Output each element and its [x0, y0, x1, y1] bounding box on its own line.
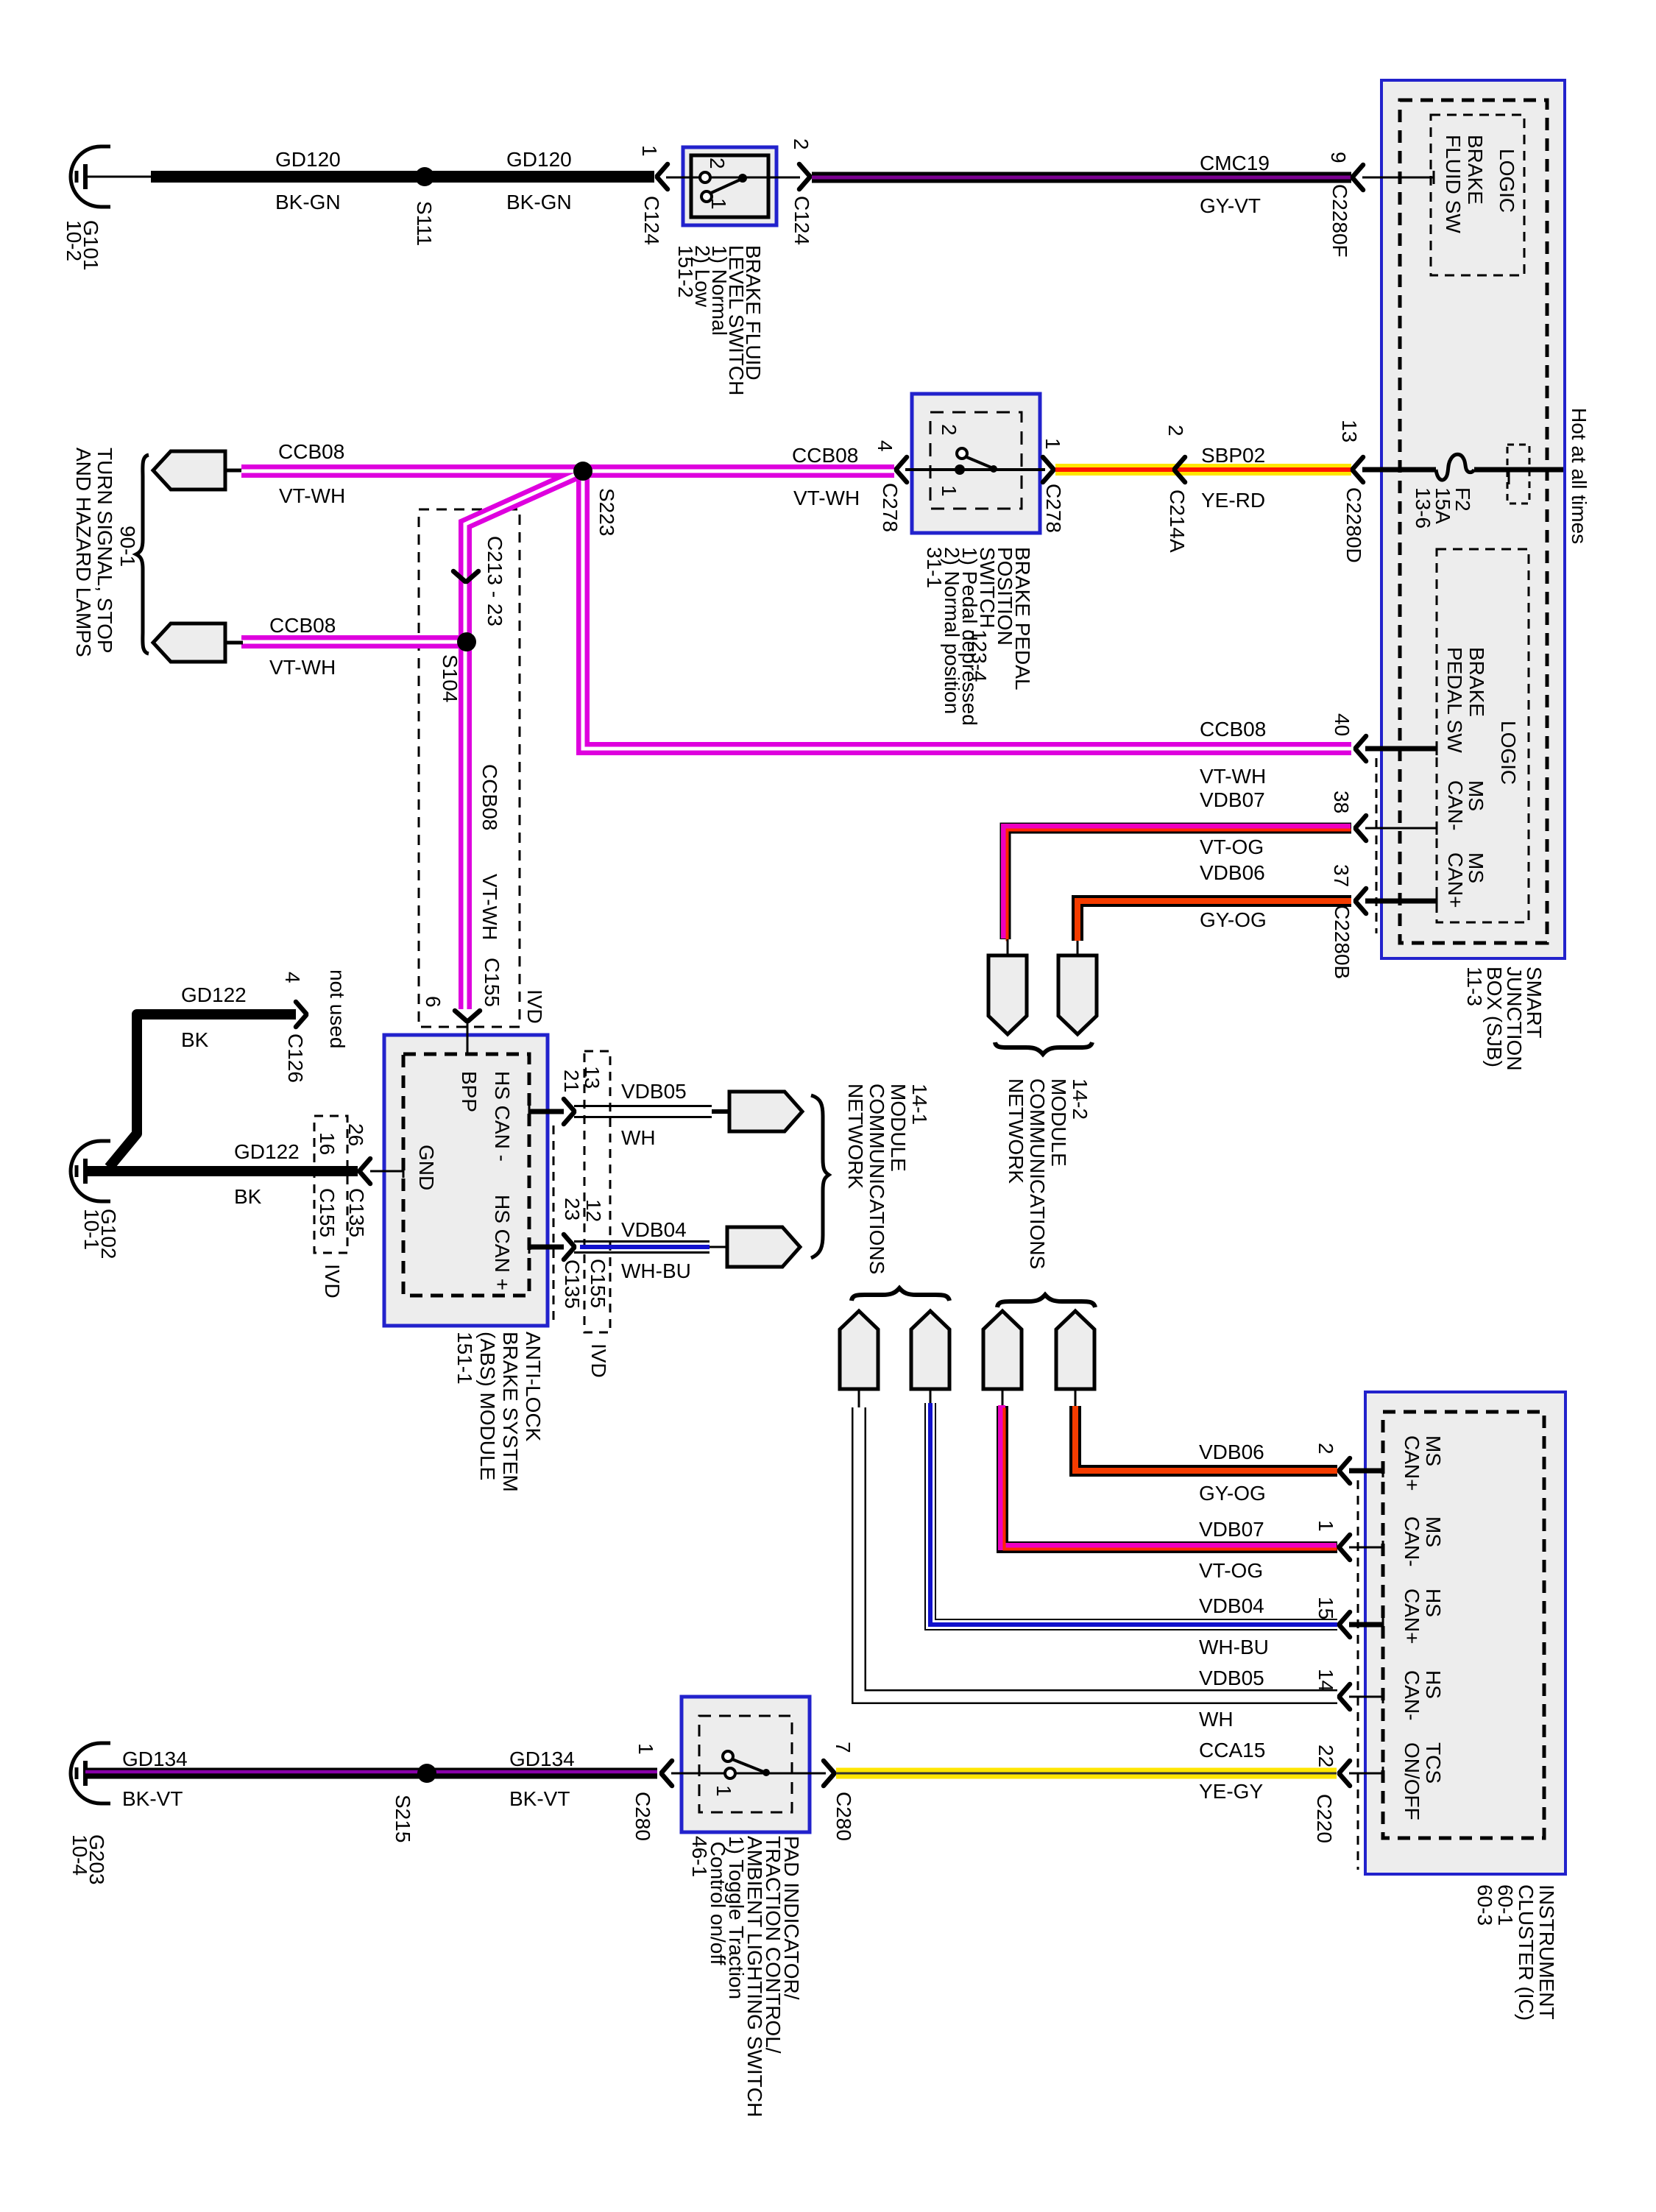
svg-text:GD134: GD134 — [122, 1748, 188, 1770]
svg-text:2: 2 — [790, 138, 813, 150]
svg-text:CCB08: CCB08 — [1200, 718, 1266, 741]
svg-text:13: 13 — [581, 1066, 604, 1089]
svg-text:IVD: IVD — [587, 1343, 610, 1378]
svg-text:C124: C124 — [640, 196, 663, 245]
svg-text:CCB08: CCB08 — [478, 764, 501, 830]
svg-text:C2280F: C2280F — [1328, 184, 1351, 258]
svg-text:WH-BU: WH-BU — [621, 1259, 691, 1282]
svg-text:VDB06: VDB06 — [1200, 861, 1265, 884]
svg-text:CCA15: CCA15 — [1199, 1739, 1265, 1762]
svg-text:S215: S215 — [392, 1795, 414, 1842]
svg-text:1: 1 — [1041, 438, 1064, 450]
svg-text:VDB06: VDB06 — [1199, 1441, 1264, 1463]
svg-text:IVD: IVD — [321, 1264, 344, 1298]
svg-text:BK-GN: BK-GN — [275, 191, 341, 213]
svg-text:IVD: IVD — [523, 989, 546, 1024]
svg-text:22: 22 — [1314, 1745, 1337, 1767]
svg-text:VDB05: VDB05 — [1199, 1667, 1264, 1689]
svg-text:1: 1 — [938, 485, 960, 497]
svg-text:16: 16 — [316, 1132, 339, 1155]
svg-text:SBP02: SBP02 — [1201, 444, 1265, 467]
svg-text:YE-RD: YE-RD — [1201, 489, 1265, 512]
svg-text:26: 26 — [344, 1123, 367, 1146]
svg-text:C280: C280 — [832, 1792, 855, 1841]
svg-text:C280: C280 — [631, 1792, 654, 1841]
svg-text:VT-WH: VT-WH — [793, 487, 860, 509]
svg-text:15: 15 — [1314, 1597, 1337, 1619]
svg-text:37: 37 — [1330, 864, 1353, 887]
svg-text:C135: C135 — [345, 1188, 368, 1237]
svg-text:CMC19: CMC19 — [1200, 152, 1270, 174]
svg-text:38: 38 — [1330, 791, 1353, 813]
svg-text:HS CAN -: HS CAN - — [491, 1071, 514, 1162]
svg-text:23: 23 — [561, 1198, 584, 1220]
svg-text:WH: WH — [621, 1126, 656, 1149]
svg-text:GD122: GD122 — [181, 983, 247, 1006]
svg-text:C135: C135 — [561, 1259, 584, 1309]
svg-text:GD120: GD120 — [506, 148, 572, 171]
svg-text:VDB05: VDB05 — [621, 1080, 687, 1103]
svg-text:VDB04: VDB04 — [1199, 1594, 1264, 1617]
svg-text:not used: not used — [326, 969, 349, 1048]
svg-text:4: 4 — [281, 972, 304, 983]
svg-text:7: 7 — [832, 1742, 854, 1753]
svg-text:1: 1 — [712, 1785, 735, 1797]
svg-text:1: 1 — [1314, 1520, 1337, 1532]
svg-text:12: 12 — [582, 1199, 605, 1222]
svg-text:C278: C278 — [1042, 484, 1065, 533]
svg-text:Hot at all times: Hot at all times — [1568, 408, 1590, 544]
svg-text:2: 2 — [938, 424, 960, 436]
svg-text:C155: C155 — [587, 1259, 609, 1308]
svg-text:BK-VT: BK-VT — [122, 1787, 183, 1810]
svg-text:13: 13 — [1338, 420, 1361, 442]
svg-text:6: 6 — [422, 996, 445, 1008]
svg-text:VDB04: VDB04 — [621, 1218, 687, 1241]
svg-text:BPP: BPP — [458, 1071, 481, 1112]
svg-text:C124: C124 — [790, 196, 813, 245]
svg-text:2: 2 — [706, 158, 729, 169]
svg-text:VDB07: VDB07 — [1199, 1518, 1264, 1541]
svg-text:1: 1 — [707, 198, 730, 210]
svg-text:WH: WH — [1199, 1708, 1234, 1731]
svg-text:C220: C220 — [1313, 1794, 1336, 1843]
svg-text:9: 9 — [1327, 152, 1350, 163]
svg-text:GD134: GD134 — [509, 1748, 575, 1770]
svg-text:LOGIC: LOGIC — [1496, 149, 1518, 213]
svg-text:90-1: 90-1 — [116, 526, 139, 567]
svg-text:S223: S223 — [595, 488, 618, 536]
svg-text:LOGIC: LOGIC — [1497, 721, 1520, 785]
svg-text:C278: C278 — [879, 483, 902, 532]
svg-text:VT-OG: VT-OG — [1200, 835, 1264, 858]
svg-text:C2280B: C2280B — [1331, 905, 1354, 979]
svg-text:1: 1 — [638, 145, 661, 157]
svg-text:C213 - 23: C213 - 23 — [484, 536, 506, 626]
svg-text:BK-GN: BK-GN — [506, 191, 572, 213]
svg-text:C214A: C214A — [1166, 490, 1189, 553]
svg-text:HS CAN +: HS CAN + — [491, 1195, 514, 1290]
svg-text:GD122: GD122 — [234, 1140, 300, 1163]
svg-text:2: 2 — [1314, 1443, 1337, 1455]
svg-text:S104: S104 — [439, 654, 461, 702]
svg-text:1: 1 — [634, 1743, 657, 1755]
svg-text:40: 40 — [1331, 713, 1354, 736]
svg-text:S111: S111 — [413, 201, 436, 246]
svg-text:WH-BU: WH-BU — [1199, 1636, 1269, 1658]
svg-text:TURN SIGNAL, STOPAND HAZARD LA: TURN SIGNAL, STOPAND HAZARD LAMPS — [72, 448, 116, 657]
svg-text:VT-WH: VT-WH — [279, 484, 345, 507]
svg-text:VT-WH: VT-WH — [269, 656, 336, 679]
svg-text:GD120: GD120 — [275, 148, 341, 171]
svg-text:C2280D: C2280D — [1342, 487, 1365, 563]
svg-text:VDB07: VDB07 — [1200, 788, 1265, 811]
svg-text:VT-WH: VT-WH — [478, 874, 501, 940]
svg-text:BK: BK — [181, 1028, 209, 1051]
svg-text:2: 2 — [1164, 425, 1187, 437]
svg-text:21: 21 — [560, 1070, 583, 1092]
svg-text:GY-VT: GY-VT — [1200, 194, 1261, 217]
svg-text:BK: BK — [234, 1185, 262, 1208]
svg-text:GND: GND — [415, 1145, 438, 1190]
svg-text:CCB08: CCB08 — [792, 444, 858, 467]
svg-text:YE-GY: YE-GY — [1199, 1780, 1263, 1803]
svg-text:CCB08: CCB08 — [269, 614, 336, 637]
svg-text:CCB08: CCB08 — [278, 440, 344, 463]
svg-text:123-4: 123-4 — [968, 629, 991, 682]
svg-text:4: 4 — [874, 440, 896, 452]
svg-text:C126: C126 — [284, 1033, 307, 1083]
svg-text:GY-OG: GY-OG — [1199, 1482, 1266, 1505]
svg-text:C155: C155 — [316, 1188, 339, 1237]
svg-text:14: 14 — [1314, 1669, 1337, 1692]
svg-text:C155: C155 — [481, 958, 503, 1007]
svg-text:BK-VT: BK-VT — [509, 1787, 570, 1810]
svg-text:GY-OG: GY-OG — [1200, 908, 1267, 931]
svg-text:VT-OG: VT-OG — [1199, 1559, 1263, 1582]
svg-text:VT-WH: VT-WH — [1200, 765, 1266, 788]
